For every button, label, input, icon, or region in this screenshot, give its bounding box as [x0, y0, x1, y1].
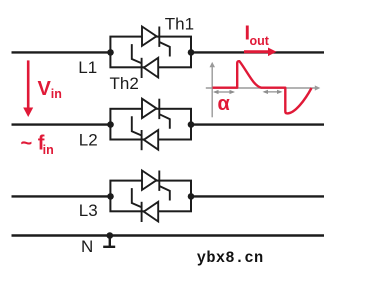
dimension arrow alpha (double-headed) [213, 90, 235, 94]
svg-text:ybx8.cn: ybx8.cn [197, 249, 264, 267]
svg-text:α: α [218, 93, 231, 115]
node N junction [107, 232, 114, 239]
node L2 right junction [188, 121, 195, 128]
arrow Iout (red) [244, 48, 277, 57]
node L2 left junction [107, 121, 114, 128]
wire L2 right segment [191, 123, 324, 125]
wire N line [12, 234, 325, 236]
wire thyristor loop box 3 [110, 181, 191, 212]
svg-text:in: in [43, 143, 54, 157]
wire thyristor loop box 2 [110, 109, 191, 140]
wire L2 left segment [12, 123, 111, 125]
svg-text:N: N [81, 237, 93, 256]
thyristor top of pair 3 [142, 171, 170, 201]
svg-text:~ f: ~ f [21, 132, 45, 154]
svg-text:Th1: Th1 [165, 14, 194, 33]
arrow Vin (red) [23, 60, 33, 117]
svg-text:Th2: Th2 [110, 74, 139, 93]
thyristor bottom of pair 2 [132, 116, 158, 150]
node L3 right junction [188, 193, 195, 200]
svg-text:L1: L1 [78, 58, 97, 77]
waveform vertical axis [210, 62, 216, 117]
waveform horizontal axis [206, 85, 320, 90]
dimension arrow second (double-headed) [263, 90, 283, 94]
thyristor top of pair 2 [142, 99, 170, 129]
thyristor Th1 [142, 27, 170, 57]
wire L3 left segment [12, 195, 111, 197]
node L1 right junction [188, 49, 195, 56]
svg-text:in: in [51, 87, 62, 101]
thyristor bottom of pair 3 [132, 188, 158, 222]
thyristor Th2 [132, 44, 158, 78]
wire thyristor loop box 1 [110, 37, 191, 68]
wire L1 left segment [12, 51, 111, 53]
node L3 left junction [107, 193, 114, 200]
svg-text:out: out [250, 34, 270, 48]
ground stub at N [103, 236, 115, 247]
wire L3 right segment [191, 195, 324, 197]
waveform current trace (red) [213, 61, 312, 113]
svg-text:L3: L3 [79, 201, 98, 220]
wire L1 right segment [191, 51, 324, 53]
svg-text:L2: L2 [79, 130, 98, 149]
svg-text:V: V [38, 78, 52, 100]
node L1 left junction [107, 49, 114, 56]
